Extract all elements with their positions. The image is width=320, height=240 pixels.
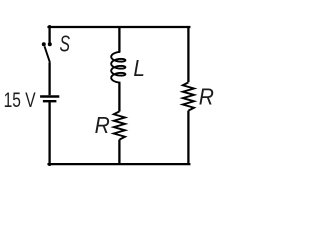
wire right edge upper xyxy=(187,26,189,82)
switch S fixed contact dot xyxy=(48,42,52,46)
resistor R middle zigzag xyxy=(114,111,125,139)
resistor R right zigzag xyxy=(183,82,194,110)
wire right edge lower xyxy=(187,111,189,165)
switch S pivot dot xyxy=(42,42,46,46)
wire top edge xyxy=(49,26,190,28)
svg-text:R: R xyxy=(199,84,214,110)
wire left edge mid (switch to battery) xyxy=(48,63,50,96)
wire middle branch upper xyxy=(118,26,120,52)
wire middle branch lower xyxy=(118,140,120,165)
svg-text:S: S xyxy=(60,31,71,57)
svg-text:R: R xyxy=(95,112,110,138)
svg-text:L: L xyxy=(133,55,145,81)
wire left edge upper (to switch contact) xyxy=(48,26,50,42)
battery short plate xyxy=(43,100,57,102)
switch S blade xyxy=(45,46,50,62)
wire left edge lower (battery to bottom) xyxy=(48,102,50,164)
svg-text:15 V: 15 V xyxy=(4,89,37,112)
battery long plate xyxy=(40,95,59,97)
wire bottom edge xyxy=(49,163,190,165)
wire middle branch mid (coil to resistor) xyxy=(118,82,120,111)
inductor L coil xyxy=(111,52,125,83)
